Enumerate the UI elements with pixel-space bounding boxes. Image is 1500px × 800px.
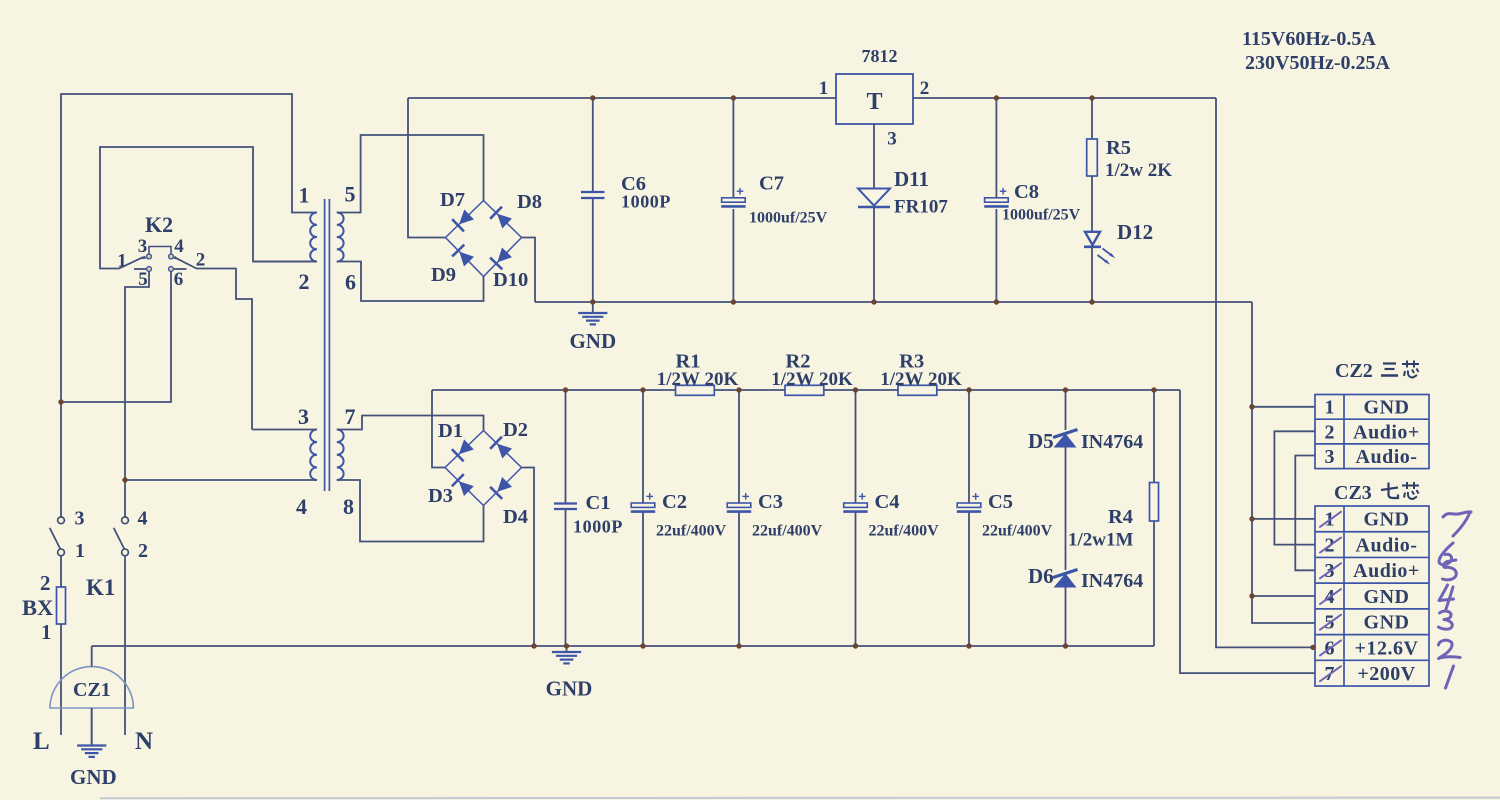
svg-text:D4: D4 bbox=[503, 506, 528, 528]
svg-text:2: 2 bbox=[138, 540, 148, 562]
svg-text:22uf/400V: 22uf/400V bbox=[752, 523, 823, 540]
svg-text:C3: C3 bbox=[758, 491, 783, 513]
svg-text:1: 1 bbox=[819, 78, 829, 99]
svg-text:BX: BX bbox=[22, 595, 53, 620]
svg-text:CZ1: CZ1 bbox=[73, 679, 111, 701]
svg-text:C5: C5 bbox=[988, 491, 1013, 513]
svg-text:3: 3 bbox=[1325, 446, 1335, 468]
svg-text:7812: 7812 bbox=[862, 46, 898, 66]
svg-text:1000P: 1000P bbox=[573, 517, 623, 537]
svg-text:FR107: FR107 bbox=[894, 197, 948, 218]
svg-text:K2: K2 bbox=[145, 212, 173, 237]
svg-text:GND: GND bbox=[569, 329, 616, 353]
svg-text:GND: GND bbox=[1364, 612, 1410, 634]
svg-text:D3: D3 bbox=[428, 485, 453, 507]
svg-text:2: 2 bbox=[196, 250, 206, 271]
svg-text:1000P: 1000P bbox=[621, 192, 671, 212]
svg-text:3: 3 bbox=[298, 404, 309, 429]
svg-text:L: L bbox=[33, 728, 50, 755]
svg-text:1/2W 20K: 1/2W 20K bbox=[771, 369, 853, 390]
svg-text:Audio+: Audio+ bbox=[1353, 560, 1420, 582]
svg-text:22uf/400V: 22uf/400V bbox=[656, 523, 727, 540]
svg-text:D9: D9 bbox=[431, 264, 456, 286]
svg-text:GND: GND bbox=[1364, 509, 1410, 531]
svg-text:230V50Hz-0.25A: 230V50Hz-0.25A bbox=[1245, 52, 1391, 74]
svg-text:2: 2 bbox=[40, 571, 51, 595]
svg-text:6: 6 bbox=[174, 269, 184, 290]
svg-text:3: 3 bbox=[138, 236, 148, 257]
svg-text:CZ3: CZ3 bbox=[1334, 482, 1372, 504]
svg-text:CZ2: CZ2 bbox=[1335, 360, 1373, 382]
svg-text:6: 6 bbox=[345, 270, 356, 295]
svg-text:3: 3 bbox=[887, 129, 897, 150]
svg-text:C2: C2 bbox=[662, 491, 687, 513]
svg-text:GND: GND bbox=[70, 765, 117, 789]
svg-text:1: 1 bbox=[299, 183, 310, 208]
svg-text:GND: GND bbox=[1364, 397, 1410, 419]
svg-text:5: 5 bbox=[138, 269, 148, 290]
svg-text:4: 4 bbox=[138, 508, 148, 530]
svg-text:22uf/400V: 22uf/400V bbox=[869, 523, 940, 540]
svg-text:Audio+: Audio+ bbox=[1353, 421, 1420, 443]
svg-text:2: 2 bbox=[1325, 421, 1335, 443]
svg-text:C8: C8 bbox=[1014, 181, 1039, 203]
svg-text:+12.6V: +12.6V bbox=[1355, 637, 1419, 659]
svg-text:4: 4 bbox=[174, 236, 184, 257]
svg-text:2: 2 bbox=[299, 269, 310, 294]
svg-text:R5: R5 bbox=[1106, 137, 1131, 159]
svg-text:D1: D1 bbox=[438, 420, 463, 442]
svg-text:1000uf/25V: 1000uf/25V bbox=[1002, 207, 1081, 224]
svg-text:4: 4 bbox=[296, 494, 307, 519]
svg-text:D7: D7 bbox=[440, 189, 465, 211]
svg-text:IN4764: IN4764 bbox=[1081, 431, 1143, 453]
svg-text:1: 1 bbox=[75, 540, 85, 562]
svg-text:1: 1 bbox=[1325, 397, 1335, 419]
svg-text:GND: GND bbox=[546, 677, 593, 701]
svg-text:T: T bbox=[866, 89, 882, 115]
svg-text:GND: GND bbox=[1364, 586, 1410, 608]
svg-text:D12: D12 bbox=[1117, 220, 1153, 244]
svg-text:D8: D8 bbox=[517, 191, 542, 213]
svg-text:IN4764: IN4764 bbox=[1081, 570, 1143, 592]
svg-text:22uf/400V: 22uf/400V bbox=[982, 523, 1053, 540]
svg-text:C7: C7 bbox=[759, 173, 784, 195]
svg-text:1/2w 2K: 1/2w 2K bbox=[1105, 160, 1172, 181]
svg-text:115V60Hz-0.5A: 115V60Hz-0.5A bbox=[1242, 28, 1376, 50]
svg-text:1000uf/25V: 1000uf/25V bbox=[749, 210, 828, 227]
svg-text:1: 1 bbox=[117, 251, 127, 272]
svg-text:D2: D2 bbox=[503, 419, 528, 441]
svg-text:K1: K1 bbox=[86, 575, 115, 600]
svg-text:D10: D10 bbox=[493, 269, 528, 291]
svg-text:3: 3 bbox=[75, 508, 85, 530]
svg-text:D5: D5 bbox=[1028, 429, 1054, 453]
svg-text:7: 7 bbox=[345, 404, 356, 429]
svg-text:1: 1 bbox=[41, 620, 52, 644]
svg-text:2: 2 bbox=[920, 78, 930, 99]
svg-text:D6: D6 bbox=[1028, 564, 1054, 588]
svg-text:+200V: +200V bbox=[1357, 663, 1415, 685]
svg-text:5: 5 bbox=[345, 182, 356, 207]
svg-text:Audio-: Audio- bbox=[1356, 534, 1418, 556]
svg-text:N: N bbox=[135, 728, 153, 755]
svg-text:C1: C1 bbox=[586, 492, 611, 514]
svg-text:1/2W 20K: 1/2W 20K bbox=[880, 369, 962, 390]
svg-text:1/2w1M: 1/2w1M bbox=[1068, 530, 1134, 551]
svg-text:1/2W 20K: 1/2W 20K bbox=[657, 369, 739, 390]
svg-text:D11: D11 bbox=[894, 167, 929, 191]
svg-text:Audio-: Audio- bbox=[1356, 446, 1418, 468]
svg-text:R4: R4 bbox=[1108, 506, 1133, 528]
svg-text:C4: C4 bbox=[875, 491, 900, 513]
svg-text:8: 8 bbox=[343, 494, 354, 519]
